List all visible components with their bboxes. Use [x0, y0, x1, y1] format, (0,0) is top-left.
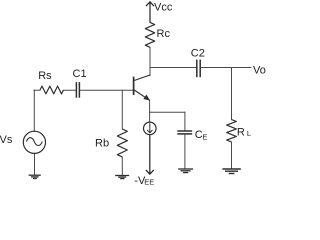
svg-text:Rc: Rc [157, 28, 171, 40]
svg-text:L: L [247, 129, 251, 138]
source Vs circle [23, 131, 45, 153]
wire [34, 89, 40, 91]
svg-text:C1: C1 [73, 68, 87, 80]
power -VEE arrow [146, 135, 153, 174]
current source I1 [144, 122, 157, 135]
transistor Q1 [134, 75, 150, 100]
current source arrow [147, 124, 152, 133]
wire [121, 157, 123, 175]
svg-text:C2: C2 [191, 48, 205, 60]
ground (Vs) [29, 175, 41, 178]
ground (CE) [178, 169, 193, 173]
wire [80, 89, 133, 91]
ground (RL) [222, 169, 240, 174]
wire [121, 90, 123, 129]
svg-text:Vcc: Vcc [154, 2, 173, 14]
wire [149, 47, 151, 76]
wire [184, 112, 186, 130]
wire [64, 89, 76, 91]
svg-text:Rb: Rb [95, 137, 109, 149]
capacitor C2 [197, 60, 200, 78]
svg-text:E: E [202, 132, 207, 141]
svg-text:R: R [237, 127, 245, 139]
wire [150, 111, 185, 113]
wire [184, 135, 186, 169]
resistor Rs [40, 86, 64, 94]
wire [149, 100, 151, 122]
base bar [133, 77, 135, 95]
ground (Rb) [115, 176, 129, 179]
emitter [134, 90, 149, 100]
collector [134, 75, 150, 81]
emitter arrowhead [144, 95, 150, 100]
resistor Rb [117, 129, 127, 157]
capacitor C1 [76, 82, 79, 98]
wire [231, 142, 233, 168]
svg-text:Vs: Vs [0, 134, 13, 146]
wire [201, 67, 251, 69]
wire [150, 67, 196, 69]
resistor Rc [145, 22, 154, 47]
power Vcc arrow [146, 2, 153, 23]
svg-text:EE: EE [144, 178, 154, 187]
sine wave [26, 138, 42, 146]
wire [34, 153, 36, 174]
svg-text:Vo: Vo [253, 65, 266, 77]
svg-text:Rs: Rs [38, 70, 52, 82]
resistor RL [227, 120, 237, 143]
capacitor CE [177, 131, 192, 134]
wire [231, 68, 233, 120]
wire [33, 90, 35, 131]
